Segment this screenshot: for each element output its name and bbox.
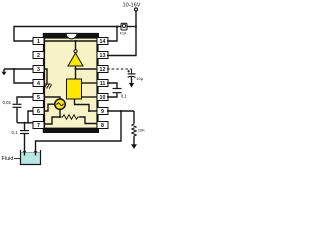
wire pin 5 to C 0,01 [17, 97, 33, 104]
wire pin 5 to oscillator top [44, 97, 60, 99]
wire pin 11 to C 0,1 right [107, 83, 117, 88]
ground internal chassis symbol [44, 84, 52, 89]
node junction pin 6 bus [27, 122, 29, 124]
node junction pin3 pin4 [13, 68, 15, 70]
label Fluid [2, 156, 21, 162]
pin 10 [97, 94, 108, 102]
wire pin 12 dashed [107, 68, 132, 70]
wire triangle base down [75, 66, 77, 79]
fluid surface ticks [23, 151, 37, 153]
fuse F 1A [120, 23, 127, 35]
inverter bubble [74, 50, 77, 53]
svg-text:5: 5 [37, 95, 40, 101]
wire pin3 node to pin 4 [14, 69, 33, 83]
fluid container [21, 150, 41, 165]
wire pin 9 out [107, 110, 134, 112]
power terminal 10-16V [122, 2, 140, 26]
wire block bottom to pin 9 [75, 99, 90, 111]
wire right electrode to pin 9 [36, 111, 122, 156]
svg-text:10-16V: 10-16V [122, 2, 140, 8]
node junction C 0,1 branch [24, 122, 26, 124]
node junction pin 9 probe [120, 110, 122, 112]
oscillator U1 internal [55, 99, 65, 109]
wire pin 1 up and across top [14, 27, 121, 42]
ground arrow under C 10u [129, 77, 134, 87]
wire block to pin 10 [82, 96, 98, 98]
node junction inverter input [75, 40, 77, 42]
svg-text:1: 1 [37, 39, 40, 45]
pin 4 [33, 80, 44, 88]
capacitor C 0,1 right [113, 89, 128, 99]
svg-text:2: 2 [37, 53, 40, 59]
pin 11 [97, 80, 108, 88]
wire left electrode [24, 134, 26, 156]
svg-text:9: 9 [101, 109, 104, 115]
svg-text:13: 13 [100, 53, 106, 59]
resistor internal block [67, 79, 82, 99]
pin 12 [97, 66, 108, 74]
wire bottom left bus to pin 7 [17, 122, 33, 124]
svg-text:4: 4 [37, 81, 40, 87]
pin 14 [97, 38, 108, 46]
wire C 0,1 right to pin 10 [107, 93, 117, 97]
svg-text:11: 11 [100, 81, 106, 87]
wire fuse to supply node [127, 26, 136, 28]
wire pin 3 internal ground stem [44, 69, 47, 84]
wire pin 3 to ground [4, 68, 33, 70]
svg-text:6: 6 [37, 109, 40, 115]
svg-text:12: 12 [100, 67, 106, 73]
pin 3 [33, 66, 44, 74]
svg-text:3: 3 [37, 67, 40, 73]
node junction to pin 12 [75, 68, 77, 70]
pin 8 [97, 122, 108, 130]
pin 13 [97, 52, 108, 60]
pin 5 [33, 94, 44, 102]
svg-text:0,01: 0,01 [3, 100, 12, 105]
pin 6 [33, 108, 44, 116]
capacitor C 10u electrolytic [127, 69, 143, 81]
svg-text:8: 8 [101, 123, 104, 129]
capacitor C 0,1 left [12, 130, 30, 135]
svg-text:10K: 10K [138, 128, 145, 133]
pin 1 [33, 38, 44, 46]
wire to pin 7 internal [44, 117, 60, 124]
resistor R 10K [132, 123, 145, 137]
wire resistor to ground [133, 137, 135, 145]
wire block to pin 11 [82, 82, 98, 84]
svg-text:10: 10 [100, 95, 106, 101]
wire oscillator bottom [59, 109, 61, 117]
svg-text:Fluid: Fluid [2, 156, 14, 162]
wire to resistor 10K [133, 111, 135, 123]
wire internal bus pin1 to pin14 [44, 40, 97, 42]
wire pin 6 down to bus [28, 111, 33, 123]
wire bus down to C 0,1 [24, 123, 26, 130]
wire to pin 12 internal [76, 68, 98, 70]
ground arrow under 10K [131, 144, 137, 149]
svg-text:14: 14 [100, 39, 106, 45]
resistor internal zigzag [60, 115, 80, 119]
pin 7 [33, 122, 44, 130]
wire inverter input stem [75, 41, 77, 50]
svg-text:0,1: 0,1 [121, 94, 128, 99]
node junction supply [135, 26, 137, 28]
capacitor C 0,01 [3, 100, 22, 108]
wire resistor to pin 8 internal [80, 117, 98, 124]
svg-text:10µ: 10µ [136, 76, 143, 81]
ground arrow left [2, 69, 7, 75]
node junction top rail pin14 [116, 26, 118, 28]
wire supply to pin 13 [107, 27, 136, 56]
wire pin 9 internal [89, 110, 97, 112]
wire pin 14 to top rail [107, 27, 117, 42]
svg-text:0,1: 0,1 [12, 130, 19, 135]
svg-text:7: 7 [37, 123, 40, 129]
node junction pin 9 internal [88, 110, 90, 112]
node junction oscillator bottom [59, 116, 61, 118]
pin 2 [33, 52, 44, 60]
svg-text:F1A: F1A [120, 32, 127, 36]
wire pin 6 to oscillator left [44, 104, 55, 111]
op-amp U1 IC body [43, 33, 99, 133]
wire C 0,01 down [16, 108, 18, 123]
op-amp internal inverter triangle [68, 53, 83, 66]
pin 9 [97, 108, 108, 116]
